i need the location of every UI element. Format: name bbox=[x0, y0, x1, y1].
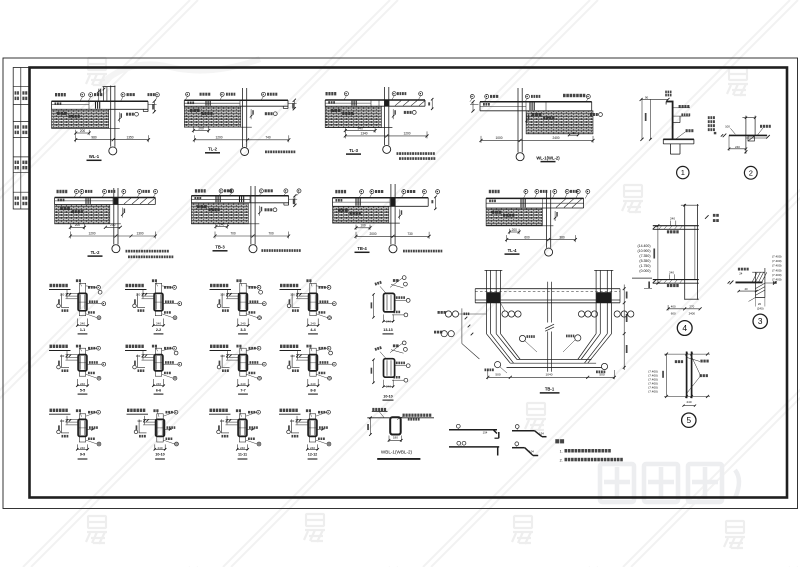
WL-1 right end vertical dim bbox=[153, 101, 155, 112]
svg-text:1-1: 1-1 bbox=[80, 328, 85, 332]
svg-text:200: 200 bbox=[75, 223, 81, 227]
svg-text:5: 5 bbox=[686, 415, 691, 425]
WBL-1 right label bbox=[403, 414, 432, 417]
TB-1 leg callouts bbox=[575, 335, 581, 341]
10-10 upper-left label bbox=[375, 346, 382, 351]
TL-3 top rebar callouts bbox=[326, 92, 337, 95]
svg-text:100: 100 bbox=[220, 293, 225, 297]
title strip left bbox=[13, 68, 29, 210]
svg-text:TB-3: TB-3 bbox=[215, 245, 225, 250]
TB-1 right diagonal leg bbox=[578, 334, 596, 360]
3-3 left leaders bbox=[226, 292, 239, 294]
9-9 outline thin bbox=[79, 414, 85, 442]
svg-text:740: 740 bbox=[265, 136, 271, 140]
10-10 left structure bbox=[138, 419, 140, 433]
9-9 header bbox=[50, 409, 68, 412]
svg-text:104: 104 bbox=[529, 449, 534, 453]
svg-text:TL-4: TL-4 bbox=[508, 248, 518, 253]
3-3 header bbox=[210, 284, 228, 287]
svg-text:2000: 2000 bbox=[369, 232, 376, 236]
TB-3 right end vertical dim bbox=[294, 196, 296, 206]
detail 2 bottom dim 240 bbox=[728, 135, 730, 151]
TL-3 wall label bbox=[331, 109, 341, 112]
svg-text:1350: 1350 bbox=[126, 135, 133, 139]
TL-2 below-band cut tick bbox=[250, 109, 252, 119]
svg-text:1200: 1200 bbox=[215, 136, 222, 140]
detail 4 left vertical dim bbox=[657, 226, 659, 284]
1-1 top label bbox=[76, 279, 81, 282]
svg-text:240: 240 bbox=[80, 321, 85, 325]
detail 1 foot bbox=[663, 138, 694, 140]
detail 2 left text stack bbox=[708, 116, 715, 119]
TB-1 right dim line bbox=[623, 285, 625, 371]
TL-4 wall label bbox=[492, 211, 502, 214]
WL-2 wall label bbox=[532, 113, 542, 116]
svg-text:100: 100 bbox=[725, 124, 730, 128]
6-6 left leaders bbox=[142, 354, 155, 356]
TL-2a below-band cut tick bbox=[121, 208, 123, 218]
TB-3 top rebar callouts bbox=[195, 189, 206, 192]
svg-text:940: 940 bbox=[358, 126, 364, 130]
detail 1 top label bbox=[665, 91, 671, 94]
5-5 left structure bbox=[61, 355, 63, 368]
TL-2a wall label bbox=[60, 207, 70, 210]
11-11 header bbox=[210, 409, 228, 412]
TB-1 bottom dimension bbox=[488, 376, 615, 378]
TL-2 band label bbox=[187, 102, 194, 105]
detail 5 bottom dim bbox=[664, 395, 710, 397]
TB-1 cross band bbox=[475, 288, 620, 290]
11-11 left leaders bbox=[226, 418, 239, 420]
detail 1 inner vertical line bbox=[649, 99, 651, 139]
svg-text:1200: 1200 bbox=[403, 132, 410, 136]
WL-1 below-band callout bbox=[135, 112, 139, 116]
10-10 bottom callout bbox=[393, 376, 400, 379]
detail 4 bottom dims bbox=[668, 308, 700, 310]
detail 3 right leader bbox=[765, 282, 776, 284]
9-9 left leaders bbox=[66, 418, 79, 420]
detail 2 beam line bbox=[729, 134, 767, 136]
TB-3 below-band callout bbox=[273, 208, 277, 212]
svg-text:100: 100 bbox=[136, 293, 141, 297]
TB-4 slab/beam band bbox=[333, 197, 429, 199]
svg-text:240: 240 bbox=[240, 382, 245, 386]
svg-text:600: 600 bbox=[671, 312, 676, 316]
svg-text:700: 700 bbox=[230, 232, 236, 236]
svg-text:(7.350): (7.350) bbox=[639, 254, 650, 258]
svg-text:(1.750): (1.750) bbox=[639, 264, 650, 268]
4-4 bottom dim bbox=[307, 319, 309, 327]
TB-3 slab/beam band bbox=[191, 195, 288, 197]
svg-text:(10.900): (10.900) bbox=[637, 249, 650, 253]
WL-1 top rebar callouts bbox=[55, 93, 66, 96]
6-6 header bbox=[126, 345, 144, 348]
TB-3 section circle bbox=[249, 245, 257, 253]
11-11 column rect bbox=[238, 419, 247, 436]
6-6 right callouts bbox=[173, 346, 177, 350]
svg-text:1200: 1200 bbox=[88, 232, 95, 236]
detail 3 hatch below bbox=[756, 283, 765, 288]
WBL-1 beam line bbox=[367, 417, 390, 419]
svg-text:6-6: 6-6 bbox=[156, 389, 161, 393]
svg-text:(7.400): (7.400) bbox=[772, 268, 782, 272]
10-10 column rect bbox=[384, 359, 395, 378]
svg-text:1.: 1. bbox=[560, 450, 563, 454]
8-8 header bbox=[280, 345, 298, 348]
TL-3 section circle bbox=[383, 145, 391, 153]
svg-text:3: 3 bbox=[758, 316, 763, 326]
TL-2a main dimension bbox=[70, 235, 155, 237]
TB-1 leader bracket left bbox=[461, 308, 463, 343]
bent bar 1 bbox=[449, 429, 497, 431]
10-10 header bbox=[127, 409, 145, 412]
9-9 left structure bbox=[61, 419, 63, 433]
svg-text:(7.400): (7.400) bbox=[648, 390, 658, 394]
3-3 left structure bbox=[221, 293, 223, 307]
svg-text:2.: 2. bbox=[560, 458, 563, 462]
svg-text:500: 500 bbox=[599, 373, 604, 377]
6-6 bottom dim bbox=[152, 379, 154, 386]
svg-text:(7.400): (7.400) bbox=[772, 273, 782, 277]
1-1 left structure bbox=[61, 293, 63, 307]
2-2 left leaders bbox=[142, 292, 155, 294]
svg-text:154: 154 bbox=[483, 430, 488, 434]
svg-text:(7.400): (7.400) bbox=[772, 278, 782, 282]
7-7 outline thin bbox=[240, 348, 246, 376]
svg-text:100: 100 bbox=[60, 419, 65, 423]
11-11 left structure bbox=[221, 419, 223, 433]
TL-3 column lines bbox=[384, 100, 389, 106]
svg-text:200: 200 bbox=[80, 129, 86, 133]
svg-text:(14.400): (14.400) bbox=[637, 244, 650, 248]
13-13 right mid callout bbox=[396, 296, 405, 299]
detail 3 bottom labels bbox=[749, 298, 756, 302]
2-2 outline thin bbox=[155, 283, 161, 315]
TB-1 black node right bbox=[596, 292, 611, 303]
TB-1 callout circles left outer bbox=[445, 311, 451, 317]
svg-text:240: 240 bbox=[80, 382, 85, 386]
WL-2 section circle bbox=[516, 153, 524, 161]
TL-4 section circle bbox=[545, 248, 553, 256]
svg-text:240: 240 bbox=[686, 400, 691, 404]
11-11 bottom dim bbox=[236, 444, 238, 450]
detail 1 step rect bbox=[679, 116, 681, 123]
TL-4 small dimension bbox=[510, 231, 520, 233]
svg-text:WL-1: WL-1 bbox=[89, 154, 100, 159]
WL-2 brick masonry wall bbox=[526, 111, 593, 134]
TL-2a small dimension bbox=[70, 226, 84, 228]
7-7 left leaders bbox=[226, 354, 239, 356]
TB-4 small dimension bbox=[356, 227, 370, 229]
svg-text:100: 100 bbox=[290, 419, 295, 423]
TL-4 main dimension bbox=[507, 239, 576, 241]
svg-text:1000: 1000 bbox=[495, 136, 502, 140]
svg-text:10-10: 10-10 bbox=[155, 452, 164, 456]
svg-text:100: 100 bbox=[290, 293, 295, 297]
1-1 right callouts bbox=[97, 286, 101, 290]
10-10 outline thin bbox=[157, 414, 163, 442]
TB-3 band label bbox=[194, 197, 201, 200]
svg-text:380: 380 bbox=[559, 235, 565, 239]
detail 3 main horizontal member bbox=[736, 281, 763, 283]
WL-1 right end step bbox=[142, 109, 144, 111]
svg-text:TB-4: TB-4 bbox=[357, 246, 367, 251]
svg-text:180: 180 bbox=[393, 436, 398, 440]
11-11 right callouts bbox=[257, 410, 261, 414]
13-13 left vertical dim bbox=[373, 294, 375, 317]
WBL-1 top label bbox=[372, 408, 386, 411]
TL-2a top rebar callouts bbox=[57, 190, 68, 193]
svg-text:WL-1(WL-2): WL-1(WL-2) bbox=[536, 155, 560, 160]
svg-text:400: 400 bbox=[671, 305, 676, 309]
svg-text:240: 240 bbox=[669, 271, 674, 275]
svg-text:730: 730 bbox=[407, 232, 413, 236]
3-3 top label bbox=[236, 279, 241, 282]
svg-text:240: 240 bbox=[156, 382, 161, 386]
8-8 bottom dim bbox=[307, 379, 309, 386]
svg-text:(7.400): (7.400) bbox=[772, 264, 782, 268]
WL-2 band label bbox=[483, 103, 490, 106]
TL-4 column lines bbox=[546, 190, 548, 248]
svg-text:240: 240 bbox=[310, 321, 315, 325]
detail 1 right leader phi8@200 bbox=[674, 107, 691, 109]
10-10 right callouts bbox=[174, 410, 178, 414]
TB-1 centerline bbox=[547, 282, 549, 323]
12-12 column rect bbox=[308, 419, 317, 436]
svg-text:13-13: 13-13 bbox=[383, 328, 392, 332]
detail 2 joint square bbox=[748, 136, 754, 141]
detail 2 right leader bbox=[760, 125, 771, 128]
1-1 column rect bbox=[78, 293, 87, 311]
2-2 bottom dim bbox=[152, 319, 154, 327]
6-6 outline thin bbox=[155, 348, 161, 376]
svg-text:980: 980 bbox=[91, 135, 97, 139]
7-7 header bbox=[210, 345, 228, 348]
TB-4 below-band cut tick bbox=[399, 209, 401, 219]
11-11 outline thin bbox=[239, 414, 245, 442]
12-12 left leaders bbox=[296, 418, 309, 420]
svg-text:7-7: 7-7 bbox=[240, 389, 245, 393]
WL-1 brick masonry wall bbox=[52, 109, 109, 128]
svg-text:(0.000): (0.000) bbox=[639, 269, 650, 273]
svg-text:TL-2: TL-2 bbox=[208, 147, 218, 152]
TL-2a band label bbox=[58, 199, 65, 202]
TB-3 note text bbox=[261, 249, 300, 252]
svg-text:8-8: 8-8 bbox=[310, 389, 315, 393]
svg-text:240: 240 bbox=[156, 321, 161, 325]
10-10 top label bbox=[153, 409, 158, 412]
6-6 column rect bbox=[154, 355, 163, 371]
detail 5 top dim bbox=[664, 353, 710, 355]
TB-3 small dimension bbox=[216, 226, 227, 228]
detail 3 vertical member bbox=[754, 272, 756, 297]
WL-2 column lines bbox=[517, 88, 519, 153]
12-12 right callouts bbox=[327, 410, 331, 414]
TL-3 slab/beam band bbox=[325, 99, 425, 101]
detail 4 bottom flange bbox=[653, 279, 699, 281]
12-12 header bbox=[280, 409, 298, 412]
WL-1 small dimension bbox=[76, 132, 90, 134]
3-3 right callouts bbox=[257, 286, 261, 290]
TB-3 column lines bbox=[250, 186, 252, 245]
4-4 outline thin bbox=[310, 283, 316, 315]
5-5 column rect bbox=[78, 355, 87, 371]
svg-text:240: 240 bbox=[310, 446, 315, 450]
TL-2a column lines bbox=[113, 198, 118, 205]
9-9 top label bbox=[76, 409, 81, 412]
WL-1 slab/beam band bbox=[52, 100, 149, 102]
svg-text:40: 40 bbox=[744, 287, 748, 291]
TB-1 far right tick bbox=[644, 288, 652, 290]
2-2 column rect bbox=[154, 293, 163, 311]
WL-1 column lines bbox=[110, 86, 112, 147]
svg-text:154: 154 bbox=[539, 432, 544, 436]
svg-text:100: 100 bbox=[60, 293, 65, 297]
svg-text:240: 240 bbox=[219, 222, 225, 226]
svg-text:240: 240 bbox=[571, 131, 576, 135]
3-3 bottom dim bbox=[237, 319, 239, 327]
3-3 outline thin bbox=[240, 283, 246, 315]
detail 4 wall lines bbox=[684, 204, 686, 300]
svg-text:TB-1: TB-1 bbox=[545, 386, 555, 391]
TL-4 brick masonry wall bbox=[486, 208, 542, 226]
TL-3 right end dim bbox=[431, 99, 433, 109]
svg-text:1340: 1340 bbox=[360, 132, 367, 136]
svg-text:200: 200 bbox=[110, 223, 116, 227]
6-6 left structure bbox=[137, 355, 139, 368]
4-4 right callouts bbox=[327, 286, 331, 290]
13-13 crossing leaders bbox=[390, 278, 403, 288]
7-7 left structure bbox=[221, 355, 223, 368]
4-4 left leaders bbox=[296, 292, 309, 294]
TB-3 below-band cut tick bbox=[259, 206, 261, 216]
WL-2 below-band callout bbox=[599, 113, 603, 117]
TB-3 brick masonry wall bbox=[191, 203, 248, 224]
TL-3 note text bbox=[397, 152, 435, 155]
bent bar 3 bbox=[512, 430, 535, 432]
10-10 left vertical dim bbox=[373, 360, 375, 383]
3-3 column rect bbox=[239, 293, 248, 311]
5-5 right callouts bbox=[97, 346, 101, 350]
svg-text:2-2: 2-2 bbox=[156, 328, 161, 332]
svg-text:200: 200 bbox=[198, 126, 204, 130]
svg-text:9-9: 9-9 bbox=[80, 452, 85, 456]
detail 2 vertical lines bbox=[745, 116, 747, 154]
svg-text:2400: 2400 bbox=[689, 312, 696, 316]
7-7 top label bbox=[236, 345, 241, 348]
detail 2 top dim bbox=[742, 117, 755, 119]
svg-text:100: 100 bbox=[290, 354, 295, 358]
svg-text:(7.400): (7.400) bbox=[772, 255, 782, 259]
detail 1 top dim 90 bbox=[641, 98, 668, 100]
8-8 left structure bbox=[291, 355, 293, 368]
detail 3 left labels bbox=[738, 268, 749, 271]
svg-text:(7.400): (7.400) bbox=[772, 259, 782, 263]
WL-1 band label bbox=[55, 102, 62, 105]
13-13 column rect bbox=[384, 293, 395, 312]
1-1 left leaders bbox=[66, 292, 79, 294]
WL-2 main dimension bbox=[481, 139, 593, 141]
2-2 left structure bbox=[137, 293, 139, 307]
TL-2 note text bbox=[265, 151, 295, 154]
13-13 upper-left label bbox=[375, 281, 382, 286]
7-7 right callouts bbox=[257, 346, 261, 350]
svg-text:2: 2 bbox=[749, 168, 753, 177]
TB-1 callout circles inner right bbox=[578, 311, 584, 317]
TB-1 left diagonal leg bbox=[486, 334, 510, 364]
4-4 column rect bbox=[309, 293, 318, 311]
8-8 top label bbox=[306, 345, 311, 348]
TL-3 main dimension bbox=[345, 135, 427, 137]
7-7 bottom dim bbox=[237, 379, 239, 386]
TL-3 below-band cut tick bbox=[392, 109, 394, 119]
svg-text:100: 100 bbox=[220, 354, 225, 358]
10-10 column rect bbox=[156, 419, 165, 436]
1-1 bottom dim bbox=[76, 319, 78, 327]
TL-2 right end step bbox=[282, 106, 284, 108]
outer thin border bbox=[3, 58, 798, 509]
TL-2 wall label bbox=[190, 109, 200, 112]
10-10 left leaders bbox=[143, 418, 156, 420]
10-10 top label bbox=[393, 344, 399, 347]
10-10 crossing leaders bbox=[390, 343, 403, 353]
12-12 top label bbox=[306, 409, 311, 412]
svg-text:240: 240 bbox=[670, 217, 675, 221]
TL-2 brick masonry wall bbox=[184, 106, 241, 127]
TL-3 below-band callout bbox=[412, 111, 416, 115]
watermark logo bottom right bbox=[600, 464, 739, 502]
9-9 right callouts bbox=[97, 410, 101, 414]
1-1 header bbox=[50, 284, 68, 287]
WL-2 header big label bbox=[563, 94, 585, 97]
TB-1 left column bbox=[485, 270, 487, 333]
svg-text:1300: 1300 bbox=[136, 232, 143, 236]
TB-4 main dimension bbox=[356, 235, 429, 237]
TL-2 slab/beam band bbox=[184, 99, 288, 101]
svg-text:3-3: 3-3 bbox=[240, 328, 245, 332]
TB-4 section circle bbox=[389, 245, 397, 253]
TB-4 brick masonry wall bbox=[333, 207, 389, 224]
detail WL-1 parapet lines bbox=[103, 87, 105, 101]
TB-1 bottom callouts bbox=[495, 362, 501, 368]
svg-text:240: 240 bbox=[240, 446, 245, 450]
1-1 outline thin bbox=[79, 283, 85, 315]
5-5 top label bbox=[76, 345, 81, 348]
svg-text:240: 240 bbox=[80, 446, 85, 450]
svg-text:240: 240 bbox=[735, 145, 740, 149]
TL-3 brick masonry wall bbox=[325, 106, 381, 127]
12-12 left structure bbox=[291, 419, 293, 433]
WL-1 section circle bbox=[109, 147, 117, 155]
10-10 right mid callout bbox=[396, 362, 405, 365]
4-4 left structure bbox=[291, 293, 293, 307]
8-8 column rect bbox=[309, 355, 318, 371]
svg-text:12-12: 12-12 bbox=[308, 452, 317, 456]
detail 1 wall thick line bbox=[672, 101, 674, 139]
circled number 1 bbox=[677, 166, 689, 178]
TB-4 band label bbox=[336, 199, 343, 202]
TL-4 band label bbox=[489, 200, 496, 203]
WL-2 brick inner dim 240 bbox=[569, 134, 578, 136]
10-10 bottom dim bbox=[154, 444, 156, 450]
detail 5 left vertical dim bbox=[666, 354, 668, 396]
TL-2 small dimension bbox=[194, 130, 209, 132]
TB-1 bottom plate bbox=[507, 366, 602, 368]
7-7 column rect bbox=[239, 355, 248, 371]
svg-text:240: 240 bbox=[157, 446, 162, 450]
4-4 top label bbox=[306, 279, 311, 282]
svg-text:(240): (240) bbox=[757, 306, 764, 310]
